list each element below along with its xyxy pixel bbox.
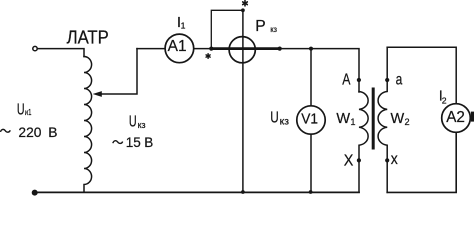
junction node V1 branch (309, 47, 313, 51)
secondary loop bottom wire from A2 (387, 132, 456, 192)
transformer secondary terminal a dot (385, 78, 389, 82)
svg-text:В: В (144, 135, 153, 150)
wire top-left from T1 to autotransformer (38, 49, 85, 57)
transformer secondary winding W2 (378, 47, 387, 192)
label ~ 220 V (0, 125, 57, 140)
wattmeter current-coil thick wire (211, 47, 279, 50)
transformer core bar (372, 88, 375, 150)
transformer secondary terminal x dot (385, 158, 389, 162)
label ~ 15 V (113, 135, 154, 150)
junction node at wattmeter current coil input (209, 47, 213, 51)
wire tap to ammeter A1 (137, 48, 165, 50)
svg-text:и1: и1 (25, 108, 32, 117)
junction dot V1 bottom on rail (309, 190, 313, 194)
autotransformer ЛАТР winding (84, 57, 92, 193)
svg-text:x: x (391, 151, 398, 168)
voltmeter V1 branch upper wire (310, 49, 312, 106)
svg-text:ЛАТР: ЛАТР (67, 27, 109, 47)
label W2 (391, 111, 410, 127)
label U_i1 left (17, 101, 32, 118)
wire node to V1 branch node (280, 48, 311, 50)
label U_kz middle (129, 114, 146, 131)
transformer primary terminal A dot (357, 78, 361, 82)
ammeter A2 (442, 104, 471, 133)
wire A1 to node (194, 48, 212, 50)
asterisk at wattmeter voltage coil top (243, 1, 248, 6)
svg-text:V1: V1 (301, 110, 318, 127)
svg-text:2: 2 (442, 95, 447, 105)
svg-text:кз: кз (270, 25, 277, 34)
svg-text:2: 2 (405, 117, 410, 127)
asterisk at wattmeter current coil (206, 54, 210, 59)
svg-text:кз: кз (280, 117, 290, 128)
svg-text:кз: кз (138, 120, 146, 131)
svg-text:U: U (17, 101, 25, 118)
terminal T2 (bottom-left input) (32, 190, 37, 195)
voltmeter V1 branch lower wire (310, 134, 312, 192)
label U_kz at V1 (270, 110, 289, 128)
svg-text:U: U (129, 114, 137, 131)
svg-text:1: 1 (350, 117, 355, 127)
label P_kz (255, 18, 277, 35)
voltmeter V1 (297, 106, 325, 134)
wattmeter P_kz circle (229, 37, 255, 63)
svg-text:U: U (270, 110, 279, 127)
svg-text:15: 15 (126, 135, 141, 150)
svg-text:В: В (48, 125, 57, 140)
svg-text:A2: A2 (446, 109, 465, 126)
svg-text:220: 220 (18, 125, 41, 140)
wattmeter voltage branch vertical wire (242, 10, 244, 192)
label I1 above A1 (177, 14, 186, 31)
svg-text:A1: A1 (168, 38, 187, 55)
dark mark at right edge of A2 (471, 112, 474, 122)
ammeter A1 (165, 34, 194, 63)
transformer primary terminal X dot (357, 158, 361, 162)
terminal T1 (top-left input) (33, 46, 37, 50)
svg-text:1: 1 (181, 20, 186, 30)
label I2 above A2 (439, 89, 447, 106)
svg-text:X: X (344, 153, 354, 170)
svg-text:W: W (336, 111, 350, 127)
junction dot wattmeter bottom on rail (241, 190, 245, 194)
junction node after wattmeter (278, 47, 282, 51)
transformer primary winding W1 (359, 92, 368, 193)
svg-text:Р: Р (255, 18, 265, 35)
svg-text:A: A (342, 72, 351, 89)
wattmeter voltage-coil connection box wire (211, 10, 243, 48)
svg-text:W: W (391, 111, 405, 127)
bottom rail primary circuit (35, 191, 360, 193)
wire node to transformer terminal A corner (311, 49, 359, 92)
wiper tap arrow of ЛАТР (101, 49, 138, 94)
svg-text:a: a (396, 72, 403, 89)
secondary loop top wire to A2 (387, 47, 456, 104)
label W1 (336, 111, 355, 127)
junction dot at box corner (241, 8, 245, 12)
